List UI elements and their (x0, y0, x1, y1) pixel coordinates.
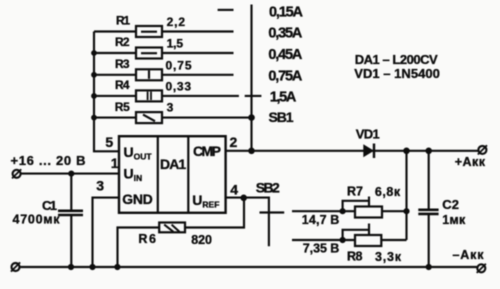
switch SB1 moving contact at 1,5A (245, 95, 262, 97)
svg-text:–Акк: –Акк (453, 248, 485, 262)
node dot R7 left tap (340, 208, 346, 214)
resistor R1 (136, 26, 162, 37)
svg-text:+16 ... 20 В: +16 ... 20 В (11, 153, 86, 168)
wire pin 2 output row to +Akk (226, 150, 479, 152)
svg-text:R7: R7 (347, 184, 363, 198)
terminal input plus (12, 169, 21, 178)
wire left bus of R1-R5 down to pin 5 (94, 32, 119, 152)
terminal input minus (11, 262, 20, 271)
node dot left bus R2 (91, 50, 97, 56)
node dot left bus R5 (91, 115, 97, 121)
svg-text:7,35 В: 7,35 В (303, 242, 340, 256)
svg-text:R4: R4 (115, 78, 130, 92)
svg-text:1: 1 (111, 155, 119, 171)
node dot input C1 junction (68, 171, 74, 177)
node dot R8 left tap (340, 237, 346, 243)
svg-text:0,75: 0,75 (166, 59, 192, 73)
node dot SB1 bus output row (248, 148, 255, 155)
wire R7/R8 bus to output row (405, 151, 407, 240)
wire pin 3 GND to bottom rail (93, 198, 120, 267)
svg-text:0,75A: 0,75A (268, 68, 303, 84)
svg-text:SB1: SB1 (269, 109, 294, 125)
switch SB1 common bus (250, 5, 252, 151)
resistor R2 (136, 48, 162, 59)
wire R2 leads (94, 52, 234, 54)
svg-text:3: 3 (167, 101, 174, 115)
node dot C1 bottom rail (68, 264, 74, 270)
wire R8 right lead (381, 239, 406, 241)
wire R6 left lead to rail (118, 228, 160, 268)
node dot pin4 junction (240, 195, 247, 202)
svg-text:2,2: 2,2 (167, 15, 186, 29)
svg-text:DA1 – L200CV: DA1 – L200CV (355, 52, 438, 67)
wire 14,7V tap to R7 (292, 210, 355, 212)
capacitor C2 plates (418, 210, 438, 214)
svg-text:820: 820 (191, 233, 212, 247)
wire C1 branch (70, 174, 72, 267)
switch SB1 position contact 0,15A (218, 9, 234, 11)
node dot C2 bottom rail (426, 264, 432, 270)
svg-text:+Акк: +Акк (455, 155, 486, 169)
svg-text:5: 5 (105, 134, 113, 150)
svg-text:C2: C2 (442, 197, 459, 212)
svg-text:0,35A: 0,35A (268, 26, 303, 42)
resistor R4 (136, 90, 162, 101)
svg-text:1,5: 1,5 (167, 37, 184, 51)
wire R5 leads (94, 117, 252, 119)
svg-text:1,5A: 1,5A (270, 90, 297, 106)
svg-text:R1: R1 (116, 13, 130, 27)
svg-text:2: 2 (230, 134, 238, 150)
wire C2 branch (428, 151, 430, 267)
wire pin 4 to SB2 and R6 (226, 198, 269, 247)
svg-text:0,15A: 0,15A (269, 4, 304, 20)
svg-text:14,7 В: 14,7 В (302, 213, 340, 227)
resistor R7 (355, 207, 382, 218)
svg-text:DA1: DA1 (160, 156, 186, 172)
svg-text:6,8к: 6,8к (375, 185, 401, 199)
svg-text:R6: R6 (138, 232, 156, 246)
svg-text:GND: GND (122, 191, 153, 207)
node dot R7 right lead to bus (403, 208, 409, 214)
DA1 L200CV body (119, 136, 226, 213)
node dot C2 top (425, 148, 432, 155)
svg-text:R3: R3 (115, 57, 130, 71)
wire R1 leads (94, 30, 234, 32)
resistor R6 (159, 223, 185, 233)
svg-text:SB2: SB2 (256, 180, 280, 196)
node dot GND bottom rail (89, 264, 95, 270)
svg-text:CMP: CMP (193, 143, 221, 159)
svg-text:4: 4 (230, 181, 238, 197)
svg-text:3: 3 (96, 178, 104, 194)
node dot SB1 bus R5 row (248, 114, 255, 121)
node dot R6 bottom rail (114, 264, 120, 270)
node dot left bus R4 (91, 93, 97, 99)
resistor R3 (136, 69, 162, 80)
wire R7 wiper bracket (343, 197, 369, 212)
node dot left bus R3 (91, 72, 97, 78)
wire R6 right lead up to pin 4 (185, 198, 244, 228)
terminal +Akk (478, 145, 487, 154)
svg-text:VD1: VD1 (356, 127, 380, 142)
capacitor C1 plates (58, 211, 83, 215)
wire R7 right lead (382, 210, 407, 212)
svg-text:R8: R8 (347, 250, 363, 264)
wire input +16..20V to pin 1 (21, 173, 119, 175)
wire R4 leads (94, 95, 239, 97)
svg-text:R2: R2 (115, 35, 130, 49)
svg-text:R5: R5 (115, 100, 130, 114)
svg-text:3,3к: 3,3к (375, 250, 402, 264)
svg-text:4700мк: 4700мк (13, 213, 61, 227)
svg-text:0,33: 0,33 (166, 80, 192, 94)
svg-text:C1: C1 (42, 198, 57, 213)
wire R3 leads (94, 74, 234, 76)
switch SB2 cross contact (260, 211, 285, 213)
diode VD1 triangle (363, 144, 374, 157)
svg-text:1мк: 1мк (442, 213, 466, 227)
node dot diode to R7R8 bus (403, 148, 410, 155)
terminal -Akk (477, 264, 486, 273)
resistor R8 (355, 235, 381, 246)
wire 7,35V tap to R8 (292, 239, 355, 241)
wire bottom rail (20, 266, 478, 268)
wire R8 wiper bracket (343, 224, 369, 241)
diode VD1 cathode bar (373, 144, 375, 159)
resistor R5 (136, 112, 162, 123)
svg-text:0,45A: 0,45A (268, 47, 303, 63)
svg-text:VD1 – 1N5400: VD1 – 1N5400 (354, 66, 440, 81)
